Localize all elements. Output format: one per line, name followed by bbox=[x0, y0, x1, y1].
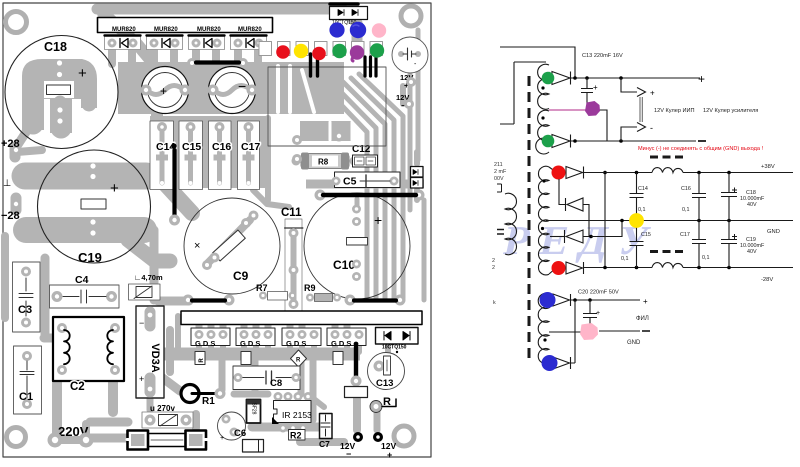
svg-text:+: + bbox=[139, 374, 144, 384]
wire R8/C5 field bbox=[300, 121, 352, 141]
svg-text:+: + bbox=[160, 84, 167, 98]
LED pink bbox=[372, 23, 386, 37]
wire C19 lower-right diagonal bbox=[128, 240, 170, 261]
shield dashes bottom bbox=[650, 250, 685, 253]
svg-text:SF28: SF28 bbox=[251, 403, 257, 415]
wire 12V cap stub bbox=[400, 86, 406, 104]
svg-text:12V Кулер усилителя: 12V Кулер усилителя bbox=[703, 108, 758, 114]
capacitor C1 bbox=[14, 346, 42, 414]
resistor RG3 diamond bbox=[291, 350, 307, 367]
LED yellow bbox=[294, 44, 308, 58]
svg-text:∟4,70m: ∟4,70m bbox=[134, 273, 163, 282]
svg-text:R2: R2 bbox=[290, 431, 302, 441]
svg-text:+: + bbox=[596, 310, 600, 317]
wire aux + rail bbox=[571, 76, 700, 80]
wire 12V bottom band bbox=[300, 438, 344, 446]
svg-text:C19: C19 bbox=[78, 250, 102, 265]
wire +38 rail bbox=[584, 171, 793, 175]
wire C2 down leads bbox=[52, 380, 62, 436]
svg-text:12V Кулер ИИП: 12V Кулер ИИП bbox=[654, 108, 695, 114]
wire transistor band bbox=[160, 348, 360, 361]
jumper bar J5 bbox=[345, 295, 406, 306]
svg-text:R: R bbox=[199, 358, 205, 363]
wire C19 lower band bbox=[26, 217, 144, 243]
resistor R3 bbox=[345, 387, 368, 398]
label warning bbox=[638, 146, 763, 152]
jumper bar J4 bbox=[183, 295, 235, 306]
svg-text:⊥: ⊥ bbox=[3, 178, 11, 189]
resistor RG4 bbox=[333, 352, 343, 365]
svg-text:0,1: 0,1 bbox=[702, 255, 710, 261]
svg-text:ФИЛ: ФИЛ bbox=[636, 316, 649, 322]
capacitor C17s bbox=[680, 221, 710, 268]
wire bridge vertical bbox=[603, 171, 607, 268]
svg-text:+: + bbox=[110, 180, 119, 197]
svg-text:G D S: G D S bbox=[286, 339, 306, 348]
capacitor C7 bbox=[319, 414, 332, 450]
wire varistor leads bbox=[147, 398, 154, 410]
capacitor C5 bbox=[332, 172, 401, 188]
wire vertical right bbox=[408, 74, 413, 210]
svg-text:MUR820: MUR820 bbox=[238, 27, 262, 33]
svg-text:R: R bbox=[296, 358, 301, 364]
transistor Q4 footprint bbox=[327, 328, 366, 348]
resistor R2 bbox=[289, 430, 306, 441]
svg-text:C10: C10 bbox=[333, 258, 355, 272]
wire C9 upper diagonal bbox=[158, 176, 192, 213]
svg-text:MUR820: MUR820 bbox=[112, 27, 136, 33]
wire C13 stub bbox=[385, 346, 391, 354]
wire fil + rail bbox=[571, 298, 640, 363]
capacitor C15 footprint bbox=[179, 121, 203, 190]
terminal squares row bbox=[259, 42, 383, 56]
svg-text:−: − bbox=[139, 318, 144, 328]
svg-text:MUR820: MUR820 bbox=[154, 27, 178, 33]
LED red 1 bbox=[276, 45, 290, 59]
svg-text:C18: C18 bbox=[44, 40, 67, 54]
jumper bars pair bbox=[311, 54, 318, 76]
LED blue 2 bbox=[350, 22, 366, 38]
label fan2 bbox=[703, 108, 758, 114]
svg-text:C5: C5 bbox=[343, 176, 357, 188]
connector 12V fans bbox=[621, 78, 655, 141]
svg-text:2: 2 bbox=[492, 265, 495, 271]
svg-text:0,1: 0,1 bbox=[638, 207, 646, 213]
wire VD3A area bbox=[166, 330, 174, 372]
wire C17 to C11 bbox=[265, 118, 271, 200]
LED blue 1 bbox=[329, 22, 344, 37]
transformer core bbox=[528, 76, 531, 362]
svg-text:C15: C15 bbox=[182, 141, 201, 153]
node 12V- hole bbox=[340, 432, 363, 459]
label fan1 bbox=[654, 108, 695, 114]
LED purple bbox=[350, 45, 364, 61]
svg-text:+38V: +38V bbox=[761, 164, 775, 170]
capacitor C14s bbox=[630, 173, 648, 221]
capacitor C8 bbox=[233, 366, 301, 390]
wire C18 to left edge bbox=[17, 126, 30, 146]
resistor RG2 bbox=[241, 352, 251, 365]
mounting hole top-right bbox=[401, 6, 421, 26]
LED dot pink bbox=[580, 323, 598, 340]
jumper bar J1 bbox=[187, 58, 248, 68]
capacitor C18s bbox=[721, 173, 765, 221]
svg-text:C15: C15 bbox=[641, 232, 651, 238]
resistor R9 bbox=[304, 283, 341, 302]
wire -28 rail bbox=[584, 266, 793, 270]
LED dot purple tap bbox=[585, 101, 600, 116]
diode DF1 bbox=[553, 294, 571, 306]
LED dot blue F2 bbox=[542, 355, 558, 371]
node aux- terminal bbox=[698, 140, 706, 142]
diode D3 footprint bbox=[189, 35, 225, 50]
label primary value bbox=[492, 258, 496, 306]
wire top edge bus bbox=[97, 9, 357, 52]
wire GND rail bbox=[546, 219, 793, 223]
LED dot blue F1 bbox=[540, 292, 556, 308]
wire C9 inner diagonal bbox=[208, 220, 250, 263]
wire to IR2153 bbox=[222, 360, 313, 420]
label GND fil bbox=[627, 340, 641, 346]
LED green 2 bbox=[370, 43, 384, 57]
mounting hole bottom-right bbox=[394, 426, 414, 446]
resistor R8 bbox=[292, 153, 359, 170]
capacitor C19s bbox=[721, 221, 765, 268]
svg-text:C20 220mF 50V: C20 220mF 50V bbox=[578, 290, 619, 296]
svg-text:C17: C17 bbox=[241, 141, 260, 153]
inductor 4,70m bbox=[129, 273, 163, 300]
svg-text:R9: R9 bbox=[304, 283, 316, 293]
resistor R1 bbox=[181, 385, 226, 408]
white slots in pour bbox=[278, 66, 352, 140]
svg-text:C17: C17 bbox=[680, 232, 690, 238]
transistor Q3 footprint bbox=[282, 328, 321, 348]
svg-text:VD3A: VD3A bbox=[149, 343, 161, 372]
svg-text:+28: +28 bbox=[1, 138, 20, 150]
dual diode right edge bbox=[411, 167, 424, 189]
node GND bbox=[767, 229, 780, 235]
svg-text:+: + bbox=[374, 212, 382, 228]
svg-text:C8: C8 bbox=[270, 378, 282, 389]
svg-text:−: − bbox=[346, 449, 351, 459]
winding W2 bbox=[538, 166, 549, 275]
svg-text:40V: 40V bbox=[747, 202, 757, 208]
capacitor C15s bbox=[621, 221, 651, 268]
capacitor footprint CA bbox=[141, 67, 191, 114]
winding W1 bbox=[536, 64, 549, 154]
jumper bars triple bbox=[365, 57, 376, 76]
wire bus box stubs bbox=[199, 322, 347, 332]
diode DF2 bbox=[553, 357, 571, 369]
node fil- bbox=[642, 330, 650, 332]
IC IR2153 bbox=[272, 392, 313, 433]
wire fuse right lead bbox=[192, 414, 200, 428]
svg-text:MUR820: MUR820 bbox=[197, 27, 221, 33]
svg-text:C13 220mF 16V: C13 220mF 16V bbox=[582, 53, 623, 59]
svg-text:G D S: G D S bbox=[195, 339, 215, 348]
diode DM1 bbox=[549, 167, 584, 179]
capacitor C19 bbox=[38, 150, 151, 265]
label C11 primary bbox=[494, 162, 507, 182]
capacitor C17 footprint bbox=[238, 121, 260, 190]
wire center tap fil bbox=[549, 331, 583, 333]
svg-text:k: k bbox=[493, 300, 496, 306]
resistor R7 bbox=[256, 283, 297, 300]
wire C10 top bbox=[355, 199, 360, 209]
node aux+ terminal bbox=[698, 72, 705, 86]
svg-text:+: + bbox=[698, 72, 705, 86]
node +28 bbox=[1, 138, 20, 150]
diode DM4 bbox=[549, 262, 584, 274]
capacitor C18 bbox=[5, 36, 118, 149]
svg-text:40V: 40V bbox=[747, 249, 757, 255]
diode SF28 bbox=[247, 400, 261, 424]
LED dot red M1 bbox=[552, 166, 566, 180]
svg-text:R7: R7 bbox=[256, 283, 268, 293]
svg-text:C1: C1 bbox=[19, 391, 33, 403]
svg-text:-: - bbox=[650, 123, 653, 133]
label C13 value bbox=[582, 53, 623, 59]
node 220V bbox=[48, 424, 94, 448]
svg-text:2: 2 bbox=[492, 258, 495, 264]
diode bank MUR820 label box bbox=[98, 18, 273, 34]
diode pair 10CTQ150 top bbox=[330, 4, 368, 26]
mounting hole top-left bbox=[6, 12, 27, 33]
node 12V+ top bbox=[400, 73, 416, 90]
pad near C12 bbox=[334, 131, 345, 142]
svg-text:C16: C16 bbox=[212, 141, 231, 153]
svg-text:IR 2153: IR 2153 bbox=[282, 410, 312, 420]
fuse F1 bbox=[127, 431, 207, 450]
inductor L2 bbox=[652, 263, 683, 268]
pads left of R8 bbox=[292, 135, 302, 164]
wire left mid vertical bbox=[150, 230, 159, 300]
ground lug bbox=[3, 178, 11, 189]
label FIL bbox=[636, 316, 649, 322]
svg-text:00V: 00V bbox=[494, 176, 504, 182]
svg-text:+: + bbox=[220, 435, 224, 442]
svg-text:211: 211 bbox=[494, 162, 503, 168]
svg-text:C9: C9 bbox=[233, 269, 249, 283]
svg-text:10CTQ150: 10CTQ150 bbox=[382, 345, 407, 351]
wire 12V hole stubs bbox=[353, 398, 361, 430]
diode D2 footprint bbox=[147, 35, 183, 50]
wire central pour behind rectifier caps bbox=[118, 62, 344, 114]
jumper bar J6 bbox=[351, 342, 362, 387]
transistor Q1 footprint bbox=[191, 328, 230, 348]
LED green 1 bbox=[332, 44, 346, 58]
capacitor C20 bbox=[578, 290, 619, 327]
wire right K diode stubs bbox=[414, 152, 420, 200]
svg-text:C7: C7 bbox=[319, 439, 330, 449]
svg-text:R1: R1 bbox=[202, 396, 215, 407]
node -28 bbox=[1, 210, 20, 222]
capacitor 12V aux bbox=[392, 37, 428, 73]
diode DM2 bbox=[559, 179, 589, 237]
svg-text:G D S: G D S bbox=[331, 339, 351, 348]
wire C9 bottom bbox=[158, 297, 189, 306]
capacitor C9 bbox=[184, 198, 280, 294]
shield dashes top bbox=[650, 156, 685, 159]
diode DM3 bbox=[550, 230, 605, 243]
svg-text:2 mF: 2 mF bbox=[494, 169, 507, 175]
svg-text:−28: −28 bbox=[1, 210, 20, 222]
svg-text:C2: C2 bbox=[70, 381, 85, 393]
wire C14-C17 field bbox=[150, 116, 269, 188]
svg-text:+: + bbox=[387, 450, 392, 460]
wire mid connector bbox=[151, 104, 163, 124]
diode D4 footprint bbox=[231, 35, 267, 50]
svg-text:C14: C14 bbox=[638, 186, 648, 192]
svg-text:+: + bbox=[593, 83, 598, 92]
primary winding P1 bbox=[497, 184, 517, 255]
capacitor C14 footprint bbox=[150, 121, 174, 190]
connector outline box bbox=[268, 67, 386, 146]
wire C4 leads bbox=[54, 292, 114, 300]
svg-text:R8: R8 bbox=[318, 158, 329, 167]
capacitor C10 bbox=[304, 193, 410, 299]
wire C18 pour bbox=[22, 59, 97, 133]
svg-text:×: × bbox=[194, 240, 200, 252]
capacitor C3 bbox=[13, 262, 41, 332]
svg-text:C16: C16 bbox=[681, 186, 691, 192]
resistor RG1 bbox=[195, 352, 205, 365]
diode DA2 bbox=[549, 135, 571, 148]
winding W3 bbox=[538, 293, 549, 363]
node R bbox=[370, 396, 396, 413]
wire under C5 bbox=[306, 180, 424, 189]
inductor L1 bbox=[652, 168, 683, 173]
svg-text:-28V: -28V bbox=[761, 277, 773, 283]
node -28V bbox=[761, 277, 773, 283]
wire aux - rail bbox=[571, 139, 696, 143]
bus bar box bbox=[181, 311, 422, 325]
wire gnd step bbox=[591, 221, 622, 237]
svg-text:+: + bbox=[650, 89, 655, 98]
diode D1 footprint bbox=[105, 35, 141, 50]
svg-text:+: + bbox=[78, 65, 87, 82]
LED red 2 bbox=[312, 47, 326, 61]
svg-text:C11: C11 bbox=[281, 207, 302, 219]
wire top in bbox=[500, 47, 575, 78]
capacitor CF bbox=[243, 440, 264, 453]
capacitor C13 bbox=[368, 351, 405, 390]
svg-text:C13: C13 bbox=[376, 378, 393, 389]
wire C19 upper band bbox=[25, 163, 146, 190]
watermark bbox=[500, 217, 665, 262]
wire IR pads band bbox=[234, 391, 268, 398]
svg-text:+: + bbox=[643, 297, 648, 306]
LED dot yellow bbox=[629, 213, 644, 228]
diode 10CTQ150 bbox=[376, 328, 419, 351]
mounting hole bottom-left bbox=[7, 428, 26, 447]
node fil+ bbox=[643, 297, 648, 306]
capacitor C16 footprint bbox=[209, 121, 232, 190]
svg-text:Минус (-) не соединять с общим: Минус (-) не соединять с общим (GND) вых… bbox=[638, 146, 763, 152]
jumper bar J2 bbox=[169, 143, 180, 225]
LED dot green A1 bbox=[542, 72, 555, 85]
LED dot red M4 bbox=[552, 261, 566, 275]
jumper bar J3 bbox=[315, 190, 425, 201]
wire bundle diagonals bbox=[327, 90, 367, 298]
capacitor C4 bbox=[50, 274, 120, 308]
svg-text:C6: C6 bbox=[234, 428, 246, 439]
diode VD3A bbox=[136, 306, 164, 398]
capacitor C13s bbox=[581, 78, 598, 104]
capacitor C11 footprint bbox=[281, 207, 303, 311]
wire left lower edge bbox=[1, 236, 9, 318]
svg-text:0,1: 0,1 bbox=[621, 256, 629, 262]
svg-text:G D S: G D S bbox=[240, 339, 260, 348]
svg-text:−: − bbox=[238, 78, 246, 94]
varistor 270v bbox=[142, 404, 193, 428]
transformer C2 bbox=[53, 317, 124, 393]
svg-text:C3: C3 bbox=[18, 304, 32, 316]
wire center tap aux bbox=[549, 110, 607, 141]
capacitor footprint CB bbox=[208, 67, 258, 114]
svg-text:GND: GND bbox=[627, 340, 641, 346]
diode DA1 bbox=[549, 72, 571, 85]
capacitor C16s bbox=[681, 173, 706, 221]
C14-C17 labels bbox=[156, 141, 260, 153]
wire K-diode stubs bbox=[112, 48, 258, 64]
LED dot green A2 bbox=[542, 135, 555, 148]
node 12V- top bbox=[396, 93, 414, 110]
svg-text:0,1: 0,1 bbox=[682, 207, 690, 213]
wire transistor stubs down bbox=[199, 337, 359, 352]
capacitor C6 bbox=[218, 412, 247, 442]
wire aux return bbox=[500, 62, 546, 124]
wire fil - rail bbox=[599, 330, 640, 332]
svg-text:GND: GND bbox=[767, 229, 780, 235]
svg-text:C4: C4 bbox=[75, 274, 89, 286]
capacitor C12 bbox=[352, 144, 378, 167]
board outline bbox=[3, 3, 431, 457]
node 12V+ hole bbox=[373, 432, 396, 460]
wire top-left diagonal bbox=[103, 13, 152, 62]
wire left edge pads bbox=[10, 147, 21, 157]
wire under IR2153 bbox=[252, 423, 322, 432]
transistor Q2 footprint bbox=[236, 328, 275, 348]
wire IR to C7 bbox=[310, 396, 324, 407]
node +38V bbox=[761, 164, 775, 170]
